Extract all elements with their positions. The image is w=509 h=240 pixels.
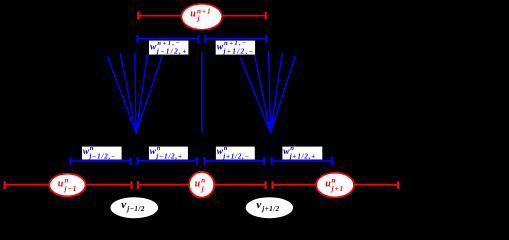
node u^n_{j+1} (red ellipse right): [316, 173, 354, 198]
label u_j^{n+1}: [190, 7, 211, 22]
svg-text:u: u: [190, 9, 196, 20]
svg-text:j: j: [197, 15, 200, 23]
interval bar w^n_{j-1/2,+} (bottom blue interval 2): [137, 157, 197, 165]
label box w^{n+1,-}_{j+1/2,-}: [216, 40, 255, 55]
label box w^n_{j+1/2,-}: [216, 145, 255, 161]
interval bar w^n_{j-1/2,-} (bottom blue interval 1): [70, 157, 130, 165]
node u^n_j (red ellipse center): [189, 172, 214, 198]
Riemann fan at x_{j-1/2} (left blue fan, 5 rays): [107, 52, 162, 132]
label v_{j+1/2}: [256, 199, 279, 213]
svg-text:n+1,−: n+1,−: [157, 40, 181, 47]
label u^n_{j+1}: [325, 177, 344, 193]
interval bar w^n_{j+1/2,+} (bottom blue interval 4): [271, 157, 332, 165]
node v_{j-1/2} (white ellipse left): [111, 197, 159, 218]
label box w^{n+1,-}_{j-1/2,+}: [149, 40, 188, 55]
Riemann fan at x_{j+1/2} (right blue fan, 5 rays): [240, 51, 295, 133]
svg-text:u: u: [195, 179, 201, 190]
label u^n_j: [195, 177, 206, 193]
label box w^n_{j-1/2,+}: [149, 145, 188, 161]
svg-text:j+1: j+1: [331, 185, 345, 193]
label v_{j-1/2}: [121, 199, 145, 213]
svg-text:j−1: j−1: [64, 185, 78, 193]
svg-text:n: n: [332, 177, 336, 185]
node v_{j+1/2} (white ellipse right): [246, 197, 293, 218]
svg-text:n: n: [65, 177, 69, 185]
svg-text:v: v: [256, 199, 261, 211]
svg-text:j+1/2,−: j+1/2,−: [223, 47, 255, 55]
label box w^n_{j+1/2,+}: [282, 145, 322, 161]
svg-text:j−1/2,+: j−1/2,+: [155, 153, 182, 161]
interval bar u_j^{n+1} (top red interval): [138, 12, 266, 20]
svg-text:j−1/2,+: j−1/2,+: [156, 47, 188, 55]
svg-text:j+1/2,+: j+1/2,+: [289, 153, 316, 161]
svg-text:n: n: [90, 145, 94, 152]
svg-text:j: j: [201, 185, 204, 193]
svg-text:n: n: [201, 177, 205, 185]
label box w^n_{j-1/2,-}: [82, 145, 122, 161]
interval bar w^{n+1,-}_{j+1/2,-} (top-right blue interval): [205, 35, 266, 43]
svg-text:u: u: [325, 179, 331, 190]
svg-text:j+1/2: j+1/2: [261, 205, 279, 213]
label u^n_{j-1}: [58, 177, 78, 193]
svg-text:j−1/2,−: j−1/2,−: [88, 153, 116, 161]
svg-text:v: v: [121, 199, 126, 211]
node u^n_{j-1} (red ellipse left): [49, 174, 85, 197]
interval bar w^{n+1,-}_{j-1/2,+} (top-left blue interval): [137, 35, 198, 43]
svg-text:n+1,−: n+1,−: [224, 40, 248, 47]
node u_j^{n+1} (top red ellipse): [182, 4, 223, 30]
grid axis at t^n (bottom red line with cell-interface ticks): [5, 181, 399, 189]
svg-text:n: n: [224, 145, 228, 152]
cell-center characteristic line (vertical blue): [201, 51, 203, 133]
svg-text:j−1/2: j−1/2: [126, 205, 145, 213]
svg-text:u: u: [58, 179, 64, 190]
svg-text:n: n: [290, 145, 294, 152]
svg-text:j+1/2,−: j+1/2,−: [222, 153, 249, 161]
svg-text:n: n: [157, 145, 161, 152]
interval bar w^n_{j+1/2,-} (bottom blue interval 3): [204, 157, 264, 165]
